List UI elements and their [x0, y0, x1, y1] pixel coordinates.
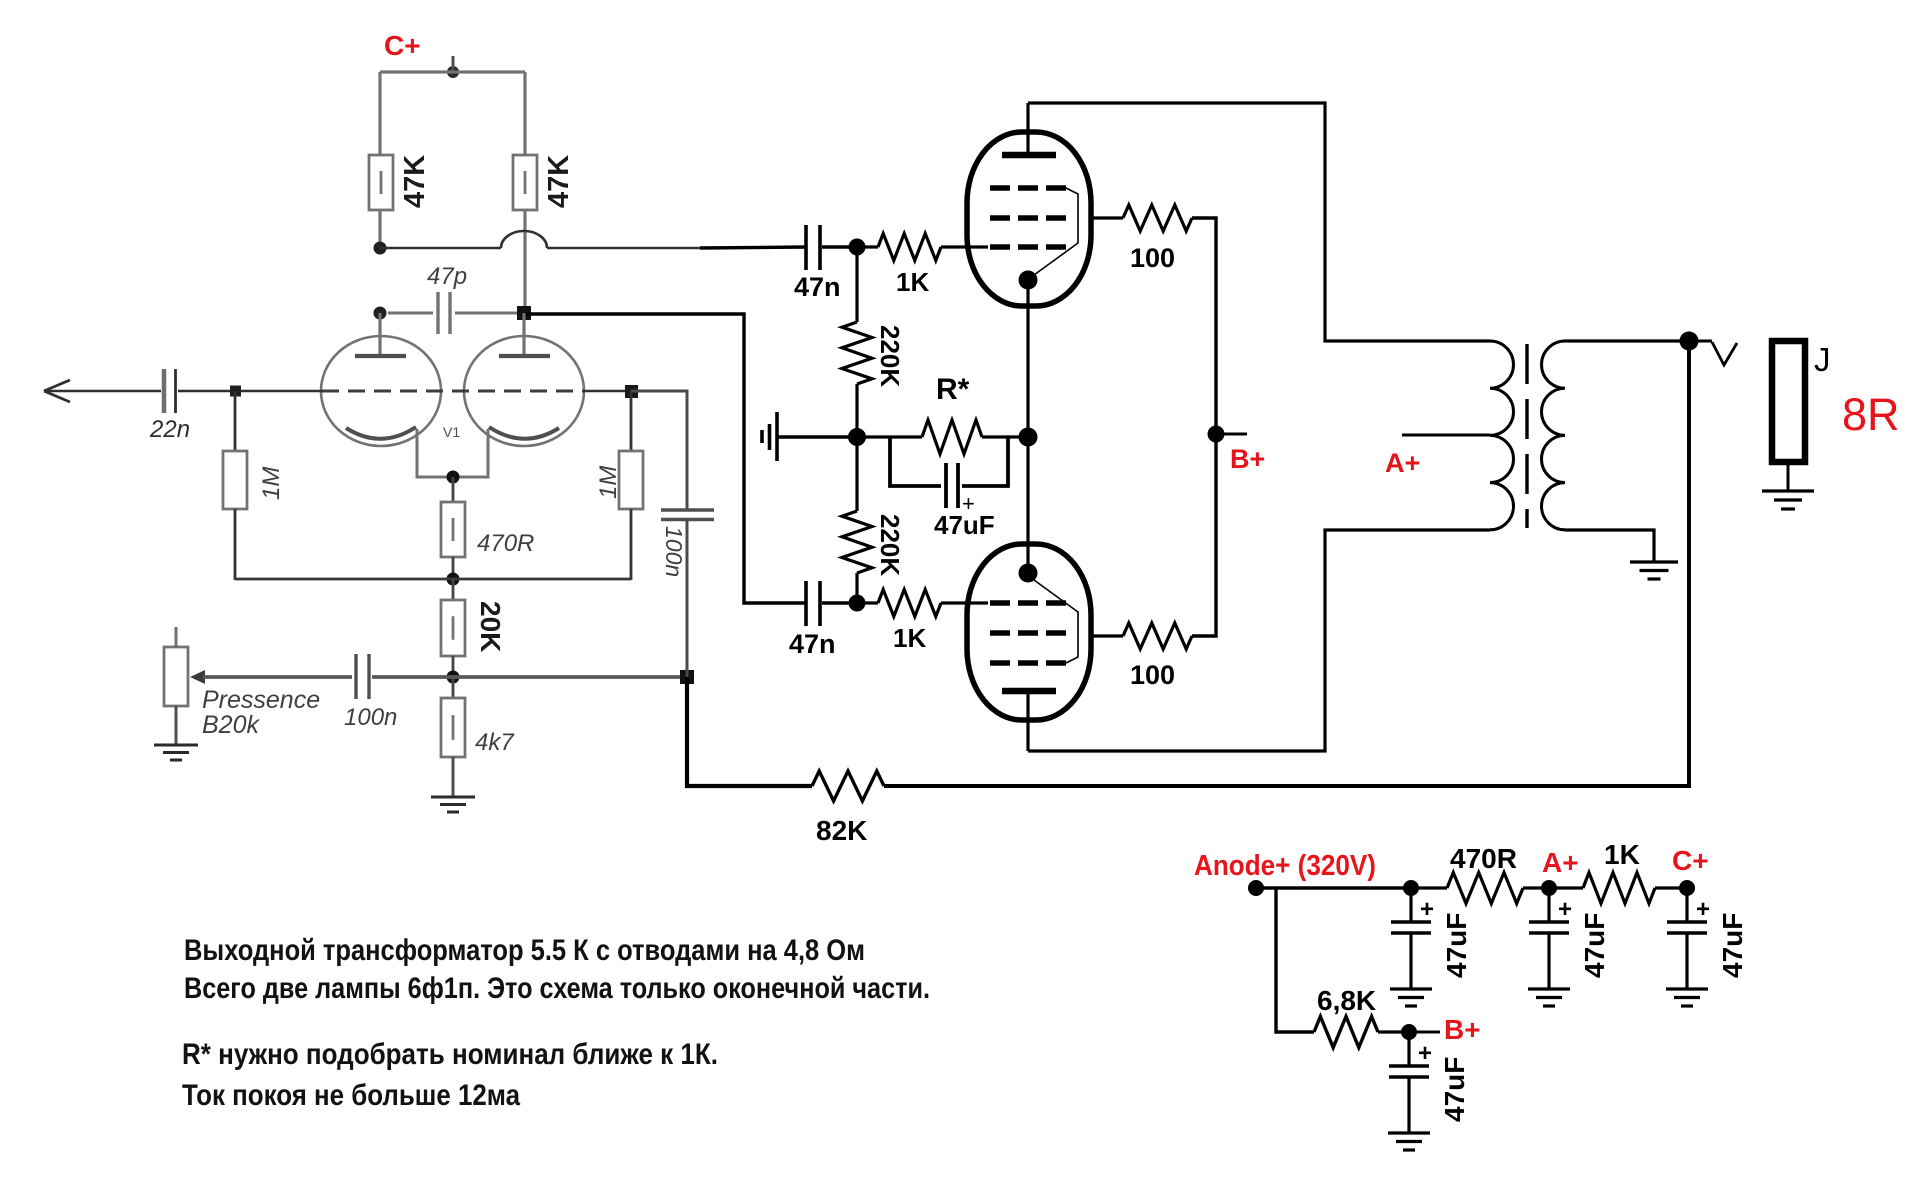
resistor 100 upper — [1123, 205, 1192, 231]
capacitor 47uF psu 1 — [1409, 888, 1412, 922]
tube lower cathode dot — [1019, 564, 1038, 583]
ground below potentiometer — [154, 744, 198, 747]
svg-text:Ток покоя не больше 12ма: Ток покоя не больше 12ма — [182, 1079, 520, 1112]
node lower grid node — [849, 595, 866, 612]
resistor 47K (left plate load) — [369, 155, 393, 210]
resistor 20K — [452, 579, 455, 600]
svg-text:1M: 1M — [595, 466, 622, 499]
resistor 82K feedback — [812, 771, 884, 801]
svg-text:+: + — [1420, 896, 1434, 923]
capacitor 47uF psu B+ — [1407, 1032, 1410, 1066]
svg-text:220K: 220K — [875, 514, 905, 576]
wire right grid to 100n cap branch — [631, 391, 687, 510]
wire right 47K top lead — [523, 72, 526, 155]
transformer secondary winding — [1542, 341, 1565, 530]
svg-text:100: 100 — [1130, 660, 1175, 690]
svg-text:47n: 47n — [789, 629, 836, 659]
svg-text:J: J — [1814, 341, 1831, 378]
node cathode junction — [447, 471, 460, 484]
node cathode network junction — [447, 573, 460, 586]
transformer primary winding — [1490, 341, 1514, 530]
ground secondary — [1630, 560, 1678, 563]
svg-text:Pressence: Pressence — [202, 686, 320, 714]
tube lower plate bar — [1002, 688, 1056, 695]
node output junction — [1680, 332, 1699, 351]
wire right anode to lower coupling, corner x744 — [524, 314, 806, 603]
svg-text:R*: R* — [936, 373, 970, 406]
wire upper coupling run with hop over right branch — [380, 247, 501, 250]
node A+ psu — [1541, 880, 1557, 896]
svg-text:Всего две лампы 6ф1п. Это схем: Всего две лампы 6ф1п. Это схема только о… — [184, 972, 930, 1005]
node left plate junction — [374, 242, 387, 255]
node anode supply terminal — [1248, 880, 1264, 896]
transformer core — [1525, 344, 1528, 528]
resistor 47K (right plate load) — [513, 155, 537, 210]
ground speaker — [1762, 489, 1814, 492]
svg-text:1K: 1K — [1604, 839, 1640, 870]
node upper grid node — [849, 239, 866, 256]
tube lower grid dashes — [990, 600, 1066, 606]
capacitor 47uF psu 2 (A+) — [1547, 888, 1550, 922]
resistor 4k7 — [452, 677, 455, 698]
tube V1 left triode envelope — [321, 336, 441, 446]
capacitor 100n (grid branch) — [661, 508, 714, 511]
tube V1 right triode envelope — [464, 336, 584, 446]
tube V1 right cathode arc — [489, 427, 559, 439]
node B+ psu — [1401, 1024, 1417, 1040]
wire cathode rail between tubes — [1026, 280, 1029, 573]
node B+ — [1208, 426, 1225, 443]
wire upper 100 to B+ rail — [1192, 218, 1216, 636]
svg-text:47uF: 47uF — [1717, 913, 1748, 978]
svg-text:B20k: B20k — [202, 711, 260, 739]
resistor 220K upper — [855, 247, 858, 322]
resistor 220K lower — [855, 437, 858, 511]
svg-text:+: + — [1696, 896, 1710, 923]
svg-text:Anode+ (320V): Anode+ (320V) — [1194, 850, 1376, 882]
tube V1 left cathode arc — [346, 427, 416, 439]
wire feedback from output — [884, 341, 1689, 786]
svg-text:6,8K: 6,8K — [1317, 985, 1376, 1016]
svg-text:C+: C+ — [384, 30, 421, 61]
svg-text:22n: 22n — [149, 416, 190, 443]
svg-text:20K: 20K — [475, 601, 506, 652]
resistor 1K upper grid stopper — [857, 245, 878, 248]
tube lower grid connector — [1034, 580, 1078, 663]
svg-text:1K: 1K — [893, 623, 926, 653]
wire left anode lead into tube — [378, 313, 381, 357]
resistor 1M (right grid leak) — [630, 391, 633, 451]
svg-text:R* нужно подобрать номинал бли: R* нужно подобрать номинал ближе к 1К. — [182, 1038, 718, 1071]
wire left 47K bottom lead — [378, 210, 381, 248]
svg-text:47K: 47K — [543, 155, 575, 208]
node bias node — [848, 428, 866, 446]
wire right anode lead into tube — [522, 313, 525, 357]
capacitor 47n upper coupling — [804, 225, 808, 270]
svg-text:47uF: 47uF — [1441, 913, 1472, 978]
svg-text:470R: 470R — [477, 530, 534, 557]
wire feedback bus y579 — [235, 578, 631, 581]
wire lower screen to 100 — [1091, 634, 1123, 637]
node left anode node (47p left) — [374, 307, 387, 320]
wire input lead — [44, 390, 161, 393]
wire secondary bottom to ground — [1565, 530, 1654, 561]
resistor 6,8K — [1314, 1017, 1378, 1048]
svg-text:47uF: 47uF — [1439, 1057, 1470, 1122]
potentiometer wiper arrow — [190, 670, 205, 684]
wire presence bus y677 — [203, 675, 352, 679]
node cathode rail at R* — [1019, 428, 1038, 447]
node right anode node (47p right) — [517, 306, 531, 320]
resistor 470R psu — [1411, 886, 1447, 889]
svg-text:8R: 8R — [1842, 389, 1900, 440]
tube upper cathode dot — [1019, 271, 1038, 290]
svg-text:+: + — [1558, 896, 1572, 923]
capacitor 47uF bypass — [890, 437, 941, 486]
tube V1 right plate bar — [499, 354, 550, 358]
svg-text:1M: 1M — [258, 467, 285, 500]
node input grid junction — [230, 386, 241, 397]
tube upper grid connector — [1034, 188, 1078, 275]
svg-text:1K: 1K — [896, 267, 929, 297]
wire grid dashed line through V1 — [322, 390, 584, 393]
wire speaker to ground — [1787, 462, 1790, 491]
resistor 470R cathode — [452, 477, 455, 502]
svg-text:220K: 220K — [875, 325, 905, 387]
wire 1M left bottom lead — [234, 509, 237, 580]
input arrow — [44, 380, 70, 391]
wire A+ center tap — [1402, 434, 1490, 437]
wire anode rail — [1256, 886, 1411, 890]
svg-text:4k7: 4k7 — [475, 729, 515, 756]
ground left of bias node — [777, 435, 857, 438]
wire lower anode to transformer bottom — [1028, 530, 1490, 751]
tube output lower envelope — [967, 544, 1091, 720]
wire left 47K top lead — [378, 72, 381, 155]
wire 22n to grid junction — [178, 390, 322, 393]
svg-text:100n: 100n — [344, 704, 397, 731]
svg-text:82K: 82K — [816, 815, 867, 846]
capacitor 47n lower coupling — [804, 581, 808, 626]
capacitor 100n presence — [354, 654, 357, 699]
svg-text:Выходной трансформатор 5.5 К с: Выходной трансформатор 5.5 К с отводами … — [184, 934, 865, 967]
node first filter — [1403, 880, 1419, 896]
capacitor 47p — [388, 312, 433, 315]
capacitor 47uF psu 3 (C+) — [1685, 888, 1688, 922]
resistor 100 lower — [1123, 623, 1192, 649]
svg-text:47n: 47n — [794, 272, 841, 302]
tube output upper envelope — [967, 132, 1091, 306]
ground below 4k7 — [431, 796, 475, 799]
svg-text:A+: A+ — [1385, 448, 1420, 478]
wire C+ top rail — [380, 70, 525, 73]
tube upper anode lead — [1026, 103, 1029, 155]
wire secondary top to output — [1565, 339, 1689, 342]
node C+ psu — [1679, 880, 1695, 896]
wire upper screen to 100 — [1091, 216, 1123, 219]
tube V1 left plate bar — [355, 354, 406, 358]
svg-text:47p: 47p — [427, 263, 467, 290]
svg-text:B+: B+ — [1444, 1014, 1481, 1045]
output check mark — [1690, 340, 1712, 343]
svg-text:100n: 100n — [661, 526, 687, 577]
node right grid junction — [625, 385, 638, 398]
svg-text:+: + — [1418, 1040, 1432, 1067]
svg-text:A+: A+ — [1542, 847, 1579, 878]
svg-text:B+: B+ — [1230, 444, 1265, 474]
wire cathode bracket V1 — [417, 429, 488, 477]
potentiometer Pressence B20k — [175, 627, 178, 647]
capacitor 22n input — [162, 369, 167, 413]
svg-text:47uF: 47uF — [1579, 913, 1610, 978]
svg-text:47K: 47K — [399, 155, 431, 208]
svg-text:100: 100 — [1130, 243, 1175, 273]
tube upper grid dashes — [990, 185, 1066, 191]
resistor 1K psu — [1549, 886, 1583, 889]
svg-text:470R: 470R — [1450, 843, 1517, 874]
node 100n right junction — [680, 670, 694, 684]
resistor 1M (left grid leak) — [234, 391, 237, 451]
resistor 1K lower grid stopper — [857, 601, 878, 604]
tube lower anode lead — [1026, 691, 1029, 751]
wire 6,8K branch — [1276, 888, 1314, 1032]
wire upper anode to transformer top — [1028, 103, 1490, 341]
svg-text:C+: C+ — [1672, 845, 1709, 876]
svg-text:47uF: 47uF — [934, 510, 995, 540]
node presence junction — [447, 671, 460, 684]
wire right 47K bottom lead crossing — [523, 210, 526, 313]
wire right grid junction run — [584, 390, 631, 393]
tube upper plate bar — [1002, 152, 1056, 159]
speaker J — [1772, 341, 1805, 462]
svg-text:V1: V1 — [443, 424, 460, 440]
